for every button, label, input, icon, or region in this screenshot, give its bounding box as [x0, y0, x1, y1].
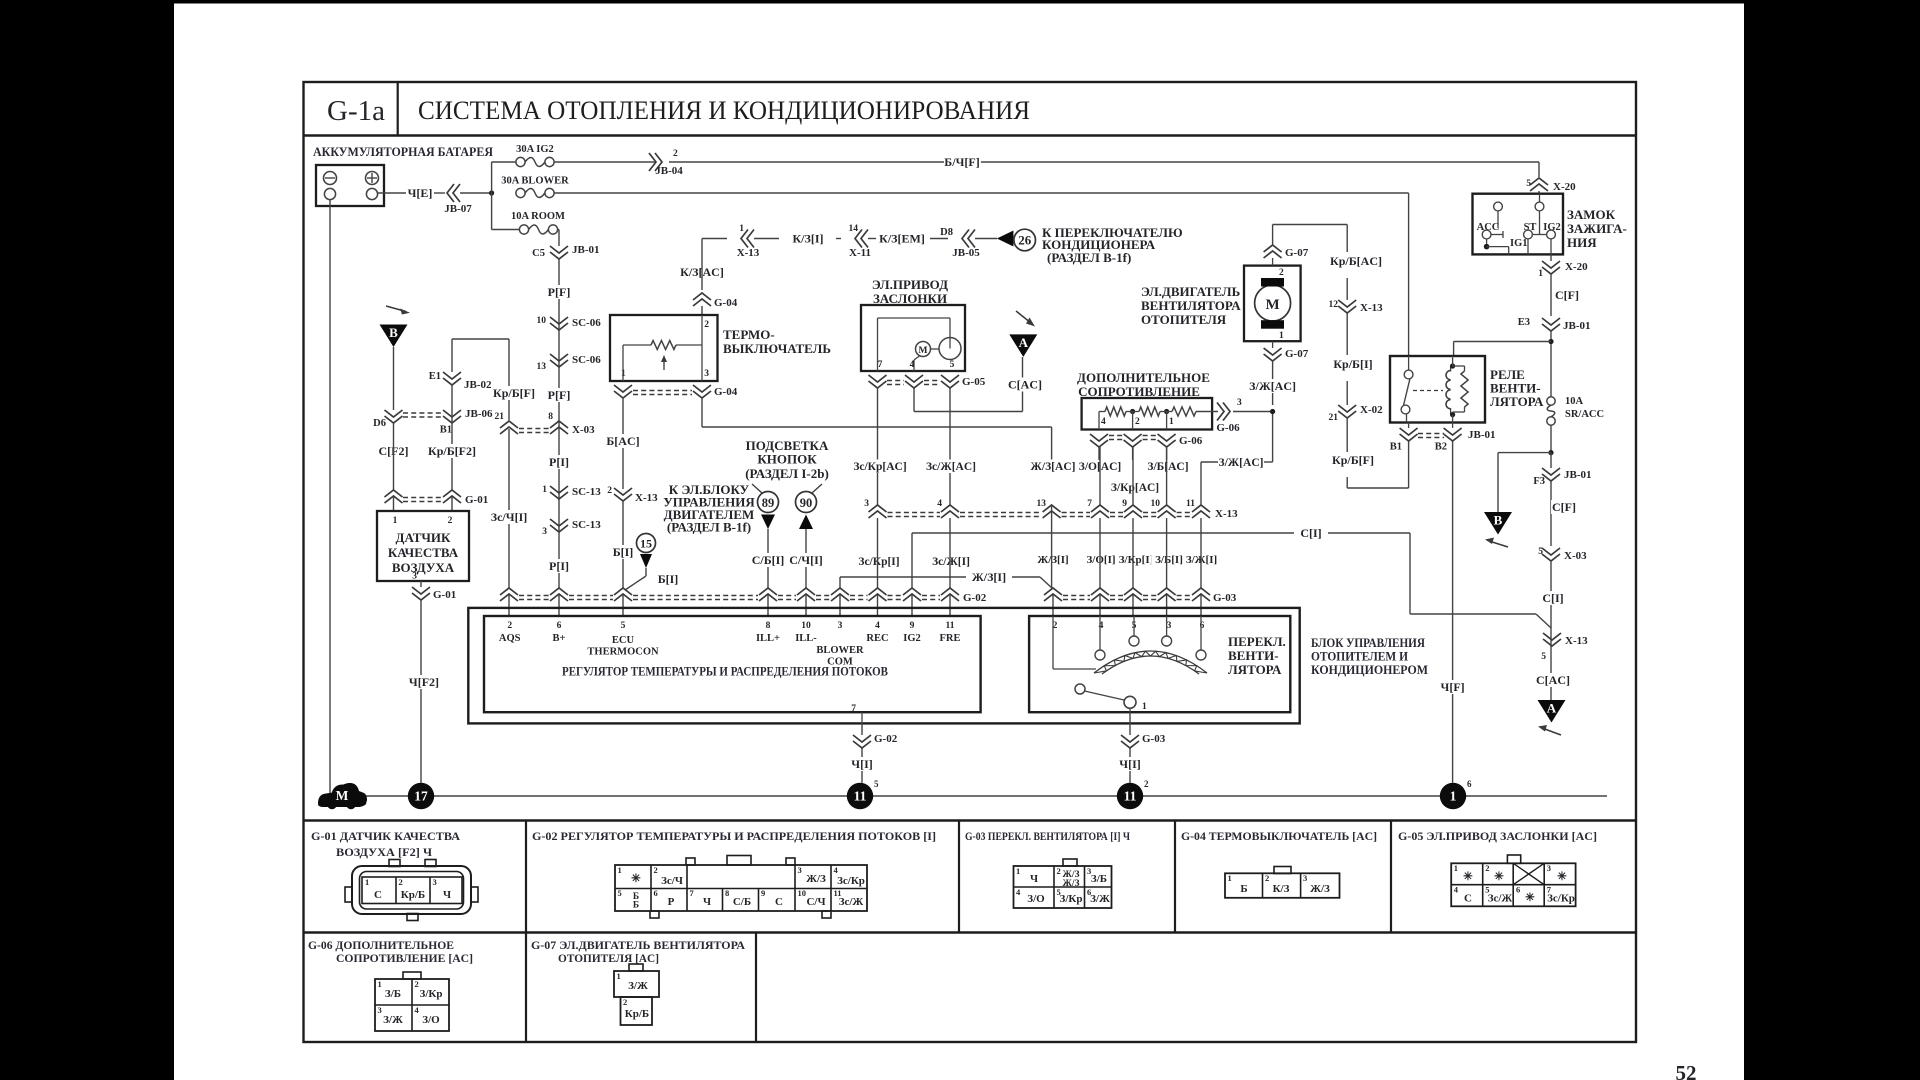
svg-text:X-03: X-03	[572, 424, 595, 436]
svg-text:E3: E3	[1518, 317, 1530, 328]
svg-text:З/Кр: З/Кр	[1060, 893, 1083, 905]
svg-text:✳: ✳	[631, 873, 641, 885]
svg-text:IG2: IG2	[903, 633, 921, 644]
svg-text:8: 8	[725, 888, 729, 898]
svg-text:2: 2	[1057, 866, 1061, 876]
svg-text:5: 5	[621, 621, 626, 631]
svg-text:2: 2	[673, 149, 678, 159]
svg-text:РЕГУЛЯТОР ТЕМПЕРАТУРЫ И РАСПРЕ: РЕГУЛЯТОР ТЕМПЕРАТУРЫ И РАСПРЕДЕЛЕНИЯ ПО…	[562, 664, 888, 679]
svg-text:Б: Б	[1240, 883, 1247, 895]
svg-text:ПЕРЕКЛ.: ПЕРЕКЛ.	[1228, 634, 1286, 649]
svg-text:B2: B2	[1435, 442, 1447, 453]
svg-text:✳: ✳	[1525, 892, 1535, 904]
svg-text:(РАЗДЕЛ B-1f): (РАЗДЕЛ B-1f)	[667, 520, 751, 535]
svg-text:7: 7	[1087, 499, 1092, 509]
svg-text:Кр/Б[I]: Кр/Б[I]	[1333, 357, 1372, 371]
svg-text:E1: E1	[429, 371, 441, 382]
svg-text:Ч[F]: Ч[F]	[1441, 680, 1465, 694]
svg-text:90: 90	[800, 496, 813, 510]
svg-text:Б[I]: Б[I]	[613, 545, 634, 559]
svg-text:G-1a: G-1a	[327, 95, 385, 127]
svg-text:Р: Р	[668, 896, 675, 908]
svg-text:JB-07: JB-07	[444, 203, 472, 215]
svg-text:13: 13	[537, 362, 547, 372]
svg-text:К/З[EM]: К/З[EM]	[879, 232, 925, 246]
svg-text:1: 1	[1169, 417, 1174, 427]
svg-text:2: 2	[448, 516, 453, 526]
svg-text:2: 2	[507, 621, 512, 631]
svg-text:5: 5	[1526, 179, 1531, 189]
svg-text:З/Ж: З/Ж	[1090, 893, 1110, 905]
svg-text:Б[AC]: Б[AC]	[606, 434, 639, 448]
svg-text:1: 1	[1142, 702, 1147, 712]
svg-text:15: 15	[640, 537, 652, 551]
svg-text:1: 1	[1016, 866, 1020, 876]
svg-text:ДОПОЛНИТЕЛЬНОЕ: ДОПОЛНИТЕЛЬНОЕ	[1077, 370, 1210, 385]
svg-text:5: 5	[1538, 547, 1543, 557]
svg-text:5: 5	[874, 779, 879, 789]
svg-text:Ч: Ч	[1030, 873, 1038, 885]
svg-text:SC-06: SC-06	[572, 317, 601, 329]
svg-text:Кр/Б[F]: Кр/Б[F]	[493, 386, 535, 400]
svg-text:ЭЛ.ДВИГАТЕЛЬ: ЭЛ.ДВИГАТЕЛЬ	[1141, 284, 1240, 299]
svg-text:5: 5	[950, 360, 955, 370]
svg-text:6: 6	[1516, 885, 1520, 895]
svg-text:С: С	[775, 896, 783, 908]
svg-text:КОНДИЦИОНЕРОМ: КОНДИЦИОНЕРОМ	[1311, 662, 1428, 677]
svg-text:3: 3	[542, 527, 547, 537]
svg-text:Б[I]: Б[I]	[658, 572, 679, 586]
svg-text:1: 1	[1454, 863, 1458, 873]
svg-text:3: 3	[1303, 873, 1307, 883]
svg-text:1: 1	[1450, 789, 1457, 804]
svg-text:3: 3	[864, 499, 869, 509]
svg-text:Зс/Ж: Зс/Ж	[839, 896, 864, 908]
svg-text:6: 6	[1467, 779, 1472, 789]
svg-text:G-04: G-04	[714, 386, 738, 398]
svg-text:3: 3	[704, 369, 709, 379]
svg-text:1: 1	[618, 865, 622, 875]
svg-text:Ж/З: Ж/З	[1062, 879, 1079, 889]
svg-text:ECU: ECU	[612, 635, 635, 646]
svg-text:X-13: X-13	[737, 247, 760, 259]
svg-text:ВОЗДУХА [F2] Ч: ВОЗДУХА [F2] Ч	[336, 847, 433, 859]
svg-text:ДАТЧИК: ДАТЧИК	[396, 530, 452, 545]
svg-text:7: 7	[878, 360, 883, 370]
svg-text:Зс/Ж: Зс/Ж	[1488, 893, 1513, 905]
svg-text:G-03: G-03	[1142, 733, 1166, 745]
svg-text:Ж/З[AC]: Ж/З[AC]	[1031, 461, 1076, 473]
svg-text:З/Ж: З/Ж	[383, 1014, 403, 1026]
svg-text:G-07: G-07	[1285, 247, 1309, 259]
svg-text:4: 4	[937, 499, 942, 509]
svg-text:SC-13: SC-13	[572, 519, 601, 531]
svg-text:К/З[I]: К/З[I]	[792, 232, 823, 246]
svg-text:4: 4	[1454, 885, 1459, 895]
svg-text:З/Ж[AC]: З/Ж[AC]	[1249, 379, 1296, 393]
svg-text:SR/ACC: SR/ACC	[1565, 409, 1604, 420]
svg-text:IG1: IG1	[1510, 238, 1528, 249]
svg-text:З/Ж[AC]: З/Ж[AC]	[1219, 457, 1264, 469]
svg-text:З/Б[I]: З/Б[I]	[1155, 554, 1183, 566]
svg-text:P[F]: P[F]	[548, 285, 571, 299]
svg-text:P[I]: P[I]	[549, 559, 569, 573]
svg-text:СОПРОТИВЛЕНИЕ: СОПРОТИВЛЕНИЕ	[1078, 384, 1200, 399]
svg-text:✳: ✳	[1494, 871, 1504, 883]
svg-text:D8: D8	[940, 227, 953, 238]
svg-text:Зс/Кр: Зс/Кр	[837, 875, 865, 887]
svg-text:X-13: X-13	[635, 492, 658, 504]
svg-text:Зс/Кр[AC]: Зс/Кр[AC]	[853, 461, 906, 473]
svg-text:JB-01: JB-01	[1563, 320, 1591, 332]
svg-text:G-04: G-04	[714, 297, 738, 309]
svg-text:5: 5	[618, 888, 622, 898]
svg-text:ТЕРМО-: ТЕРМО-	[723, 327, 775, 342]
svg-text:З/Кр: З/Кр	[420, 988, 443, 1000]
svg-text:F3: F3	[1533, 476, 1545, 487]
svg-text:КАЧЕСТВА: КАЧЕСТВА	[388, 545, 459, 560]
svg-text:З/Б: З/Б	[385, 988, 401, 1000]
svg-text:B1: B1	[440, 425, 452, 436]
svg-text:1: 1	[542, 485, 547, 495]
svg-text:Ч[I]: Ч[I]	[851, 757, 872, 771]
svg-text:ILL+: ILL+	[756, 633, 780, 644]
svg-text:Зс/Ч: Зс/Ч	[661, 875, 683, 887]
svg-text:3: 3	[412, 572, 417, 582]
svg-text:Кр/Б[F]: Кр/Б[F]	[1332, 453, 1374, 467]
svg-text:Б/Ч[F]: Б/Ч[F]	[944, 155, 979, 169]
svg-text:Зс/Кр[I]: Зс/Кр[I]	[858, 556, 899, 568]
svg-text:1: 1	[378, 979, 382, 989]
svg-text:THERMOCON: THERMOCON	[587, 647, 659, 658]
svg-text:8: 8	[548, 412, 553, 422]
svg-text:8: 8	[766, 621, 771, 631]
svg-text:ВЕНТИЛЯТОРА: ВЕНТИЛЯТОРА	[1141, 298, 1241, 313]
svg-text:IG2: IG2	[1543, 222, 1561, 233]
svg-text:1: 1	[1279, 331, 1284, 341]
svg-text:1: 1	[393, 516, 398, 526]
svg-text:JB-06: JB-06	[465, 408, 493, 420]
svg-text:G-03 ПЕРЕКЛ. ВЕНТИЛЯТОРА [I] Ч: G-03 ПЕРЕКЛ. ВЕНТИЛЯТОРА [I] Ч	[965, 831, 1130, 843]
svg-text:С: С	[1464, 893, 1472, 905]
svg-text:JB-01: JB-01	[1468, 429, 1496, 441]
svg-text:Ж/З: Ж/З	[806, 873, 826, 885]
svg-text:Ч[F2]: Ч[F2]	[409, 675, 439, 689]
svg-text:Ж/З[I]: Ж/З[I]	[1037, 554, 1068, 566]
svg-text:6: 6	[557, 621, 562, 631]
svg-text:Кр/Б: Кр/Б	[625, 1008, 649, 1020]
svg-text:G-01: G-01	[433, 589, 456, 601]
svg-text:2: 2	[399, 877, 403, 887]
svg-text:4: 4	[875, 621, 880, 631]
svg-text:3: 3	[433, 877, 437, 887]
svg-text:AQS: AQS	[499, 633, 521, 644]
svg-text:M: M	[1266, 297, 1280, 313]
svg-text:C[F]: C[F]	[1555, 288, 1579, 302]
svg-text:2: 2	[704, 320, 709, 330]
svg-text:X-13: X-13	[1360, 302, 1383, 314]
svg-text:G-06: G-06	[1216, 422, 1240, 434]
svg-text:M: M	[919, 346, 928, 356]
svg-text:С/Ч: С/Ч	[806, 896, 825, 908]
svg-text:С/Б: С/Б	[733, 896, 751, 908]
svg-text:ILL-: ILL-	[795, 633, 817, 644]
svg-text:12: 12	[1329, 300, 1339, 310]
svg-text:B1: B1	[1390, 442, 1402, 453]
svg-text:ЗАМОК: ЗАМОК	[1567, 207, 1616, 222]
svg-text:P[I]: P[I]	[549, 455, 569, 469]
svg-text:Кр/Б: Кр/Б	[401, 889, 425, 901]
svg-text:1: 1	[739, 224, 744, 234]
svg-text:JB-05: JB-05	[952, 247, 980, 259]
svg-text:1: 1	[1538, 269, 1543, 279]
svg-text:9: 9	[1122, 499, 1127, 509]
svg-text:Б: Б	[633, 901, 639, 911]
svg-text:JB-01: JB-01	[1564, 469, 1592, 481]
svg-text:G-02 РЕГУЛЯТОР ТЕМПЕРАТУРЫ И Р: G-02 РЕГУЛЯТОР ТЕМПЕРАТУРЫ И РАСПРЕДЕЛЕН…	[532, 831, 936, 843]
svg-text:10A: 10A	[1565, 396, 1584, 407]
svg-text:С/Б[I]: С/Б[I]	[752, 553, 785, 567]
svg-text:1: 1	[365, 877, 369, 887]
svg-text:G-05: G-05	[962, 376, 986, 388]
svg-text:(РАЗДЕЛ B-1f): (РАЗДЕЛ B-1f)	[1047, 250, 1131, 265]
svg-text:14: 14	[849, 224, 859, 234]
svg-text:JB-04: JB-04	[655, 165, 683, 177]
svg-text:2: 2	[1279, 268, 1284, 278]
svg-text:4: 4	[1101, 417, 1106, 427]
svg-text:A: A	[1019, 335, 1029, 350]
svg-text:НИЯ: НИЯ	[1567, 235, 1597, 250]
svg-text:C[AC]: C[AC]	[1008, 378, 1042, 392]
svg-text:2: 2	[1265, 873, 1269, 883]
svg-text:11: 11	[1124, 789, 1137, 804]
svg-text:G-04 ТЕРМОВЫКЛЮЧАТЕЛЬ [AC]: G-04 ТЕРМОВЫКЛЮЧАТЕЛЬ [AC]	[1181, 831, 1377, 843]
svg-text:С/Ч[I]: С/Ч[I]	[789, 553, 822, 567]
svg-text:10: 10	[801, 621, 811, 631]
svg-text:З/Б[AC]: З/Б[AC]	[1147, 461, 1188, 473]
svg-text:ЭЛ.ПРИВОД: ЭЛ.ПРИВОД	[872, 277, 948, 292]
svg-text:10: 10	[1151, 499, 1161, 509]
svg-text:JB-01: JB-01	[572, 244, 600, 256]
svg-text:30A BLOWER: 30A BLOWER	[501, 176, 569, 187]
svg-text:B: B	[389, 325, 398, 340]
svg-text:С[I]: С[I]	[1300, 526, 1321, 540]
svg-text:B+: B+	[553, 633, 566, 644]
svg-text:К/З[AC]: К/З[AC]	[680, 265, 724, 279]
svg-text:2: 2	[654, 865, 658, 875]
svg-text:ВОЗДУХА: ВОЗДУХА	[392, 560, 455, 575]
svg-text:СОПРОТИВЛЕНИЕ [AC]: СОПРОТИВЛЕНИЕ [AC]	[336, 953, 473, 965]
svg-text:17: 17	[414, 789, 428, 804]
svg-text:SC-06: SC-06	[572, 354, 601, 366]
svg-text:Ж/З: Ж/З	[1310, 883, 1330, 895]
svg-text:P[F]: P[F]	[548, 388, 571, 402]
svg-text:3: 3	[798, 865, 802, 875]
svg-text:X-11: X-11	[849, 247, 871, 259]
svg-text:ЛЯТОРА: ЛЯТОРА	[1228, 662, 1282, 677]
svg-text:2: 2	[623, 997, 627, 1007]
svg-text:✳: ✳	[1463, 871, 1473, 883]
svg-text:Зс/Ж[AC]: Зс/Ж[AC]	[926, 461, 976, 473]
svg-text:9: 9	[910, 621, 915, 631]
svg-text:Ч[E]: Ч[E]	[408, 186, 433, 200]
svg-text:ЗАЖИГА-: ЗАЖИГА-	[1567, 221, 1627, 236]
svg-text:З/О[I]: З/О[I]	[1086, 554, 1115, 566]
svg-text:2: 2	[607, 486, 612, 496]
svg-text:FRE: FRE	[940, 633, 961, 644]
svg-text:ОТОПИТЕЛЯ: ОТОПИТЕЛЯ	[1141, 312, 1227, 327]
svg-text:11: 11	[946, 621, 955, 631]
svg-text:КНОПОК: КНОПОК	[757, 452, 817, 467]
svg-text:З/Б: З/Б	[1091, 873, 1107, 885]
svg-text:ЛЯТОРА: ЛЯТОРА	[1490, 394, 1544, 409]
svg-text:9: 9	[761, 888, 765, 898]
svg-text:10A ROOM: 10A ROOM	[511, 211, 565, 222]
svg-text:G-05 ЭЛ.ПРИВОД ЗАСЛОНКИ [AC]: G-05 ЭЛ.ПРИВОД ЗАСЛОНКИ [AC]	[1398, 831, 1597, 843]
svg-text:З/О: З/О	[1027, 893, 1045, 905]
svg-text:3: 3	[378, 1005, 382, 1015]
svg-text:21: 21	[495, 412, 505, 422]
svg-text:✳: ✳	[1557, 871, 1567, 883]
svg-text:2: 2	[415, 979, 419, 989]
svg-text:2: 2	[1135, 417, 1140, 427]
svg-text:1: 1	[1228, 873, 1232, 883]
svg-text:Ч: Ч	[443, 889, 451, 901]
svg-text:7: 7	[851, 704, 856, 714]
svg-text:B: B	[1494, 513, 1503, 528]
svg-text:Зс/Ч[I]: Зс/Ч[I]	[491, 510, 527, 524]
svg-text:З/О: З/О	[422, 1014, 440, 1026]
svg-text:13: 13	[1037, 499, 1047, 509]
svg-text:З/Кр[I]: З/Кр[I]	[1119, 554, 1154, 566]
svg-text:C[AC]: C[AC]	[1536, 673, 1570, 687]
svg-text:Кр/Б[F2]: Кр/Б[F2]	[428, 444, 476, 458]
svg-text:26: 26	[1018, 233, 1032, 248]
svg-text:G-02: G-02	[874, 733, 898, 745]
svg-text:G-01: G-01	[465, 494, 488, 506]
svg-text:2: 2	[1144, 779, 1149, 789]
svg-text:G-01 ДАТЧИК КАЧЕСТВА: G-01 ДАТЧИК КАЧЕСТВА	[311, 831, 461, 843]
svg-text:Ж/З[I]: Ж/З[I]	[972, 570, 1006, 584]
svg-text:C5: C5	[532, 248, 545, 259]
svg-text:G-02: G-02	[963, 592, 987, 604]
svg-text:ВЫКЛЮЧАТЕЛЬ: ВЫКЛЮЧАТЕЛЬ	[723, 341, 831, 356]
svg-text:ACC: ACC	[1477, 222, 1500, 233]
svg-text:M: M	[336, 788, 349, 803]
svg-text:X-02: X-02	[1360, 404, 1383, 416]
svg-text:3: 3	[1547, 863, 1551, 873]
svg-text:Ч: Ч	[703, 896, 711, 908]
svg-text:JB-02: JB-02	[464, 379, 492, 391]
svg-text:X-20: X-20	[1565, 261, 1588, 273]
svg-text:З/Кр[AC]: З/Кр[AC]	[1111, 482, 1159, 494]
svg-text:3: 3	[838, 621, 843, 631]
svg-text:Кр/Б[AC]: Кр/Б[AC]	[1330, 254, 1382, 268]
svg-text:11: 11	[1186, 499, 1195, 509]
svg-text:89: 89	[762, 496, 775, 510]
svg-text:C[F]: C[F]	[1552, 500, 1576, 514]
svg-text:ОТОПИТЕЛЯ [AC]: ОТОПИТЕЛЯ [AC]	[558, 953, 659, 965]
svg-text:Ч[I]: Ч[I]	[1119, 757, 1140, 771]
svg-text:З/Ж: З/Ж	[628, 980, 648, 992]
svg-text:10: 10	[537, 316, 547, 326]
svg-text:(РАЗДЕЛ I-2b): (РАЗДЕЛ I-2b)	[745, 466, 829, 481]
svg-text:X-03: X-03	[1564, 550, 1587, 562]
svg-text:СИСТЕМА ОТОПЛЕНИЯ И КОНДИЦИОНИ: СИСТЕМА ОТОПЛЕНИЯ И КОНДИЦИОНИРОВАНИЯ	[418, 95, 1030, 125]
svg-text:X-13: X-13	[1565, 635, 1588, 647]
svg-text:Зс/Кр: Зс/Кр	[1547, 893, 1575, 905]
svg-text:К/З: К/З	[1273, 883, 1290, 895]
svg-text:5: 5	[1541, 652, 1546, 662]
svg-text:SC-13: SC-13	[572, 486, 601, 498]
svg-text:Зс/Ж[I]: Зс/Ж[I]	[932, 556, 970, 568]
svg-text:D6: D6	[373, 418, 386, 429]
svg-text:С: С	[374, 889, 382, 901]
svg-text:G-03: G-03	[1213, 592, 1237, 604]
svg-text:A: A	[1547, 701, 1557, 716]
svg-text:G-07 ЭЛ.ДВИГАТЕЛЬ ВЕНТИЛЯТОРА: G-07 ЭЛ.ДВИГАТЕЛЬ ВЕНТИЛЯТОРА	[531, 940, 746, 952]
svg-text:REC: REC	[866, 633, 888, 644]
svg-text:X-13: X-13	[1215, 508, 1238, 520]
svg-text:11: 11	[854, 789, 867, 804]
svg-text:G-06: G-06	[1179, 435, 1203, 447]
svg-text:21: 21	[1329, 413, 1339, 423]
svg-text:3: 3	[1167, 621, 1172, 631]
svg-text:X-20: X-20	[1553, 181, 1576, 193]
svg-text:2: 2	[1485, 863, 1489, 873]
svg-text:30A IG2: 30A IG2	[516, 144, 554, 155]
svg-text:6: 6	[654, 888, 658, 898]
svg-text:52: 52	[1676, 1061, 1697, 1080]
svg-text:АККУМУЛЯТОРНАЯ БАТАРЕЯ: АККУМУЛЯТОРНАЯ БАТАРЕЯ	[313, 144, 494, 159]
svg-text:ЗАСЛОНКИ: ЗАСЛОНКИ	[873, 291, 947, 306]
svg-text:BLOWER: BLOWER	[816, 645, 864, 656]
svg-text:G-06 ДОПОЛНИТЕЛЬНОЕ: G-06 ДОПОЛНИТЕЛЬНОЕ	[308, 940, 454, 952]
svg-text:4: 4	[910, 360, 915, 370]
svg-text:ВЕНТИ-: ВЕНТИ-	[1228, 648, 1279, 663]
svg-text:3: 3	[1237, 398, 1242, 408]
svg-text:10: 10	[798, 888, 807, 898]
svg-text:C[I]: C[I]	[1542, 591, 1563, 605]
svg-text:G-07: G-07	[1285, 348, 1309, 360]
svg-text:1: 1	[617, 971, 621, 981]
